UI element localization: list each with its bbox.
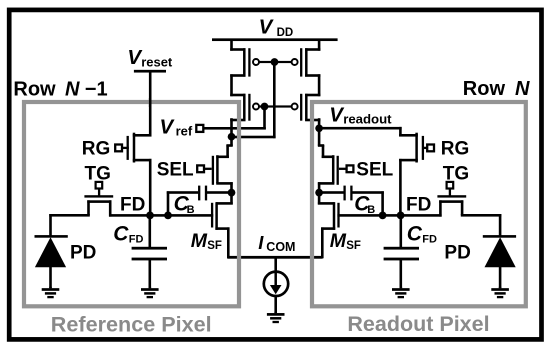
- svg-text:Row: Row: [13, 78, 56, 100]
- wire M1-M2 gate rail: [260, 61, 292, 63]
- reference pixel boundary box (Row N-1): [24, 102, 239, 306]
- wire top gates to Vref node: [232, 62, 276, 138]
- svg-text:V: V: [160, 116, 176, 139]
- svg-text:−1: −1: [85, 78, 108, 100]
- label FD (left): [120, 194, 145, 215]
- current source ICOM: [264, 272, 288, 296]
- node FD junction at CFD (left): [146, 212, 154, 220]
- pmos M4 (bottom-right cascode): [292, 94, 308, 121]
- wire M1 source to M3 drain: [230, 74, 233, 96]
- wire RG source to FD (left): [149, 159, 152, 217]
- terminal SEL gate (left): [197, 165, 204, 172]
- node top gate junction: [271, 58, 279, 66]
- pmos M3 drain stub: [230, 94, 245, 97]
- terminal TG gate (left): [96, 182, 103, 189]
- wire RG terminal to gate (left): [122, 147, 129, 149]
- wire CB left plate to node (right): [318, 191, 344, 194]
- wire FD node line (right): [337, 214, 441, 217]
- svg-text:M: M: [191, 230, 208, 252]
- wire TG to PD (right): [461, 214, 502, 237]
- terminal Vref: [196, 125, 203, 132]
- pmos M4 drain stub: [305, 94, 320, 97]
- ground PD (right): [491, 287, 509, 298]
- transistor SEL (right, row select): [322, 155, 339, 185]
- wire left branch trunk: [230, 118, 233, 146]
- wire PD to ground (left): [49, 266, 52, 288]
- node Vref junction: [228, 133, 236, 141]
- transistor MSF (left, source follower): [211, 192, 233, 230]
- label Row N: [463, 78, 530, 100]
- svg-text:B: B: [367, 204, 375, 216]
- caption Reference Pixel: [51, 312, 212, 337]
- label MSF (left): [191, 230, 222, 252]
- svg-text:SF: SF: [207, 240, 222, 252]
- terminal TG gate (right): [447, 182, 454, 189]
- capacitor CB (right): [343, 186, 352, 201]
- pmos M2 drain stub: [305, 48, 320, 51]
- node FD junction at CB (left): [164, 212, 172, 220]
- pmos M4 source stub: [305, 119, 320, 122]
- label Row N-1: [13, 78, 107, 100]
- label CB (right): [354, 192, 375, 215]
- label ICOM: [258, 232, 295, 254]
- svg-text:readout: readout: [343, 112, 392, 127]
- ground CFD (right): [392, 287, 410, 298]
- wire M2 source to M4 drain: [318, 74, 321, 96]
- pmos M3 (bottom-left cascode): [243, 94, 259, 121]
- wire Vref line: [203, 127, 266, 130]
- label SEL (left): [157, 160, 194, 181]
- pmos M2 source stub: [305, 74, 320, 77]
- terminal RG gate (left): [115, 145, 122, 152]
- pmos M1 source stub: [230, 74, 245, 77]
- terminal SEL gate (right): [347, 165, 354, 172]
- svg-text:ref: ref: [176, 124, 193, 139]
- svg-text:PD: PD: [444, 243, 470, 264]
- transistor MSF (right, source follower): [318, 192, 340, 230]
- label Vreset: [127, 46, 173, 69]
- svg-text:N: N: [515, 78, 530, 100]
- svg-text:I: I: [258, 232, 264, 253]
- wire FD to CFD (right): [400, 215, 403, 248]
- svg-text:N: N: [65, 78, 80, 100]
- svg-text:RG: RG: [82, 139, 111, 160]
- svg-text:M: M: [330, 230, 347, 252]
- wire TG to PD (left): [49, 214, 90, 237]
- wire CFD to ground (right): [400, 259, 403, 288]
- node FD junction at CFD (right): [397, 212, 405, 220]
- wire RG terminal to gate (right): [424, 147, 428, 149]
- label PD (left): [70, 243, 96, 264]
- wire M3-M4 gate rail: [260, 105, 292, 107]
- svg-text:Row: Row: [463, 78, 506, 100]
- capacitor CFD (left): [132, 247, 167, 261]
- wire CFD to ground (left): [149, 259, 152, 288]
- wire SEL terminal to gate (left): [204, 168, 212, 170]
- node Vreadout junction: [315, 124, 323, 132]
- svg-text:SEL: SEL: [356, 160, 393, 181]
- wire rail to current source: [274, 257, 277, 271]
- label TG (left): [85, 164, 111, 185]
- transistor TG (right, transfer gate): [437, 195, 466, 216]
- svg-text:SEL: SEL: [157, 160, 194, 181]
- wire MSF source to Icom rail (left): [227, 227, 230, 258]
- label CFD (left): [113, 223, 143, 246]
- svg-text:FD: FD: [422, 234, 437, 246]
- wire Icom rail: [227, 256, 322, 259]
- wire VDD rail to M1 drain: [230, 39, 233, 51]
- svg-text:FD: FD: [120, 194, 145, 215]
- label PD (right): [444, 243, 470, 264]
- label CB (left): [174, 192, 195, 215]
- wire right branch trunk: [318, 118, 321, 146]
- label SEL (right): [356, 160, 393, 181]
- label Vref: [160, 116, 193, 139]
- ground PD (left): [42, 287, 60, 298]
- pmos M3 source stub: [230, 119, 245, 122]
- svg-text:PD: PD: [70, 243, 96, 264]
- pmos M1 drain stub: [230, 48, 245, 51]
- wire PD to ground (right): [499, 266, 502, 288]
- wire SEL terminal to gate (right): [339, 168, 347, 170]
- label RG (right): [441, 139, 470, 160]
- transistor SEL (left, row select): [212, 155, 229, 185]
- label FD (right): [406, 194, 431, 215]
- wire MSF source to Icom rail (right): [321, 227, 324, 258]
- label MSF (right): [330, 230, 361, 252]
- transistor TG (left, transfer gate): [84, 195, 113, 216]
- svg-text:COM: COM: [266, 240, 295, 254]
- transistor RG (left, reset gate): [127, 133, 152, 163]
- terminal RG gate (right): [427, 145, 434, 152]
- pmos M1 (top-left of current mirror): [243, 48, 259, 76]
- wire TG terminal to gate (left): [98, 189, 100, 197]
- photodiode PD (right): [483, 235, 516, 267]
- VDD rail: [212, 38, 338, 41]
- label TG (right): [443, 164, 469, 185]
- capacitor CB (left): [198, 186, 207, 201]
- terminal Vreset supply bar: [134, 70, 166, 73]
- photodiode PD (left): [35, 235, 68, 267]
- wire SEL source to CB node (right): [318, 182, 335, 193]
- wire right trunk jog: [318, 144, 324, 158]
- node FD junction at CB (right): [379, 212, 387, 220]
- wire Vreadout down to RG drain (right): [399, 127, 402, 137]
- wire trunk jog left: [226, 144, 232, 158]
- caption Readout Pixel: [347, 312, 489, 336]
- wire RG source to FD (right): [399, 159, 402, 217]
- wire TG terminal to gate (right): [449, 189, 451, 197]
- wire FD to CFD (left): [149, 215, 152, 248]
- svg-text:C: C: [407, 223, 423, 246]
- wire FD to CB left plate (left): [167, 191, 199, 216]
- wire VDD rail to M2 drain: [318, 39, 321, 51]
- wire Vreset to RG drain: [149, 71, 152, 136]
- svg-text:SF: SF: [346, 240, 361, 252]
- svg-text:reset: reset: [141, 54, 173, 69]
- node bottom gate junction: [261, 103, 269, 111]
- svg-text:DD: DD: [277, 27, 294, 39]
- svg-text:V: V: [259, 16, 275, 39]
- svg-text:RG: RG: [441, 139, 470, 160]
- label RG (left): [82, 139, 111, 160]
- transistor RG (right, reset gate): [399, 133, 424, 163]
- svg-text:Readout Pixel: Readout Pixel: [347, 312, 489, 336]
- svg-text:B: B: [187, 204, 195, 216]
- capacitor CFD (right): [384, 247, 419, 261]
- svg-text:FD: FD: [406, 194, 431, 215]
- label Vreadout: [329, 104, 392, 127]
- wire SEL source to CB node (left): [216, 182, 233, 193]
- wire Vreset crossing box edge: [149, 98, 152, 107]
- wire bottom gates down to Vref line: [263, 107, 266, 130]
- ground CFD (left): [141, 287, 159, 298]
- wire CB right plate to node (left): [207, 191, 233, 194]
- svg-text:Reference Pixel: Reference Pixel: [51, 312, 212, 337]
- wire current source to ground: [274, 296, 277, 313]
- wire FD node line (left): [109, 214, 213, 217]
- wire Vreadout line: [319, 127, 402, 130]
- label CFD (right): [407, 223, 437, 246]
- pmos M2 (top-right of current mirror): [292, 48, 308, 76]
- node CB junction (right): [315, 189, 323, 197]
- svg-text:C: C: [113, 223, 129, 246]
- ground ICOM: [267, 312, 285, 323]
- readout pixel boundary box (Row N): [312, 102, 526, 306]
- node CB junction (left): [228, 189, 236, 197]
- wire FD to CB right plate (right): [352, 191, 384, 216]
- svg-text:FD: FD: [129, 234, 144, 246]
- VDD label: [259, 16, 294, 39]
